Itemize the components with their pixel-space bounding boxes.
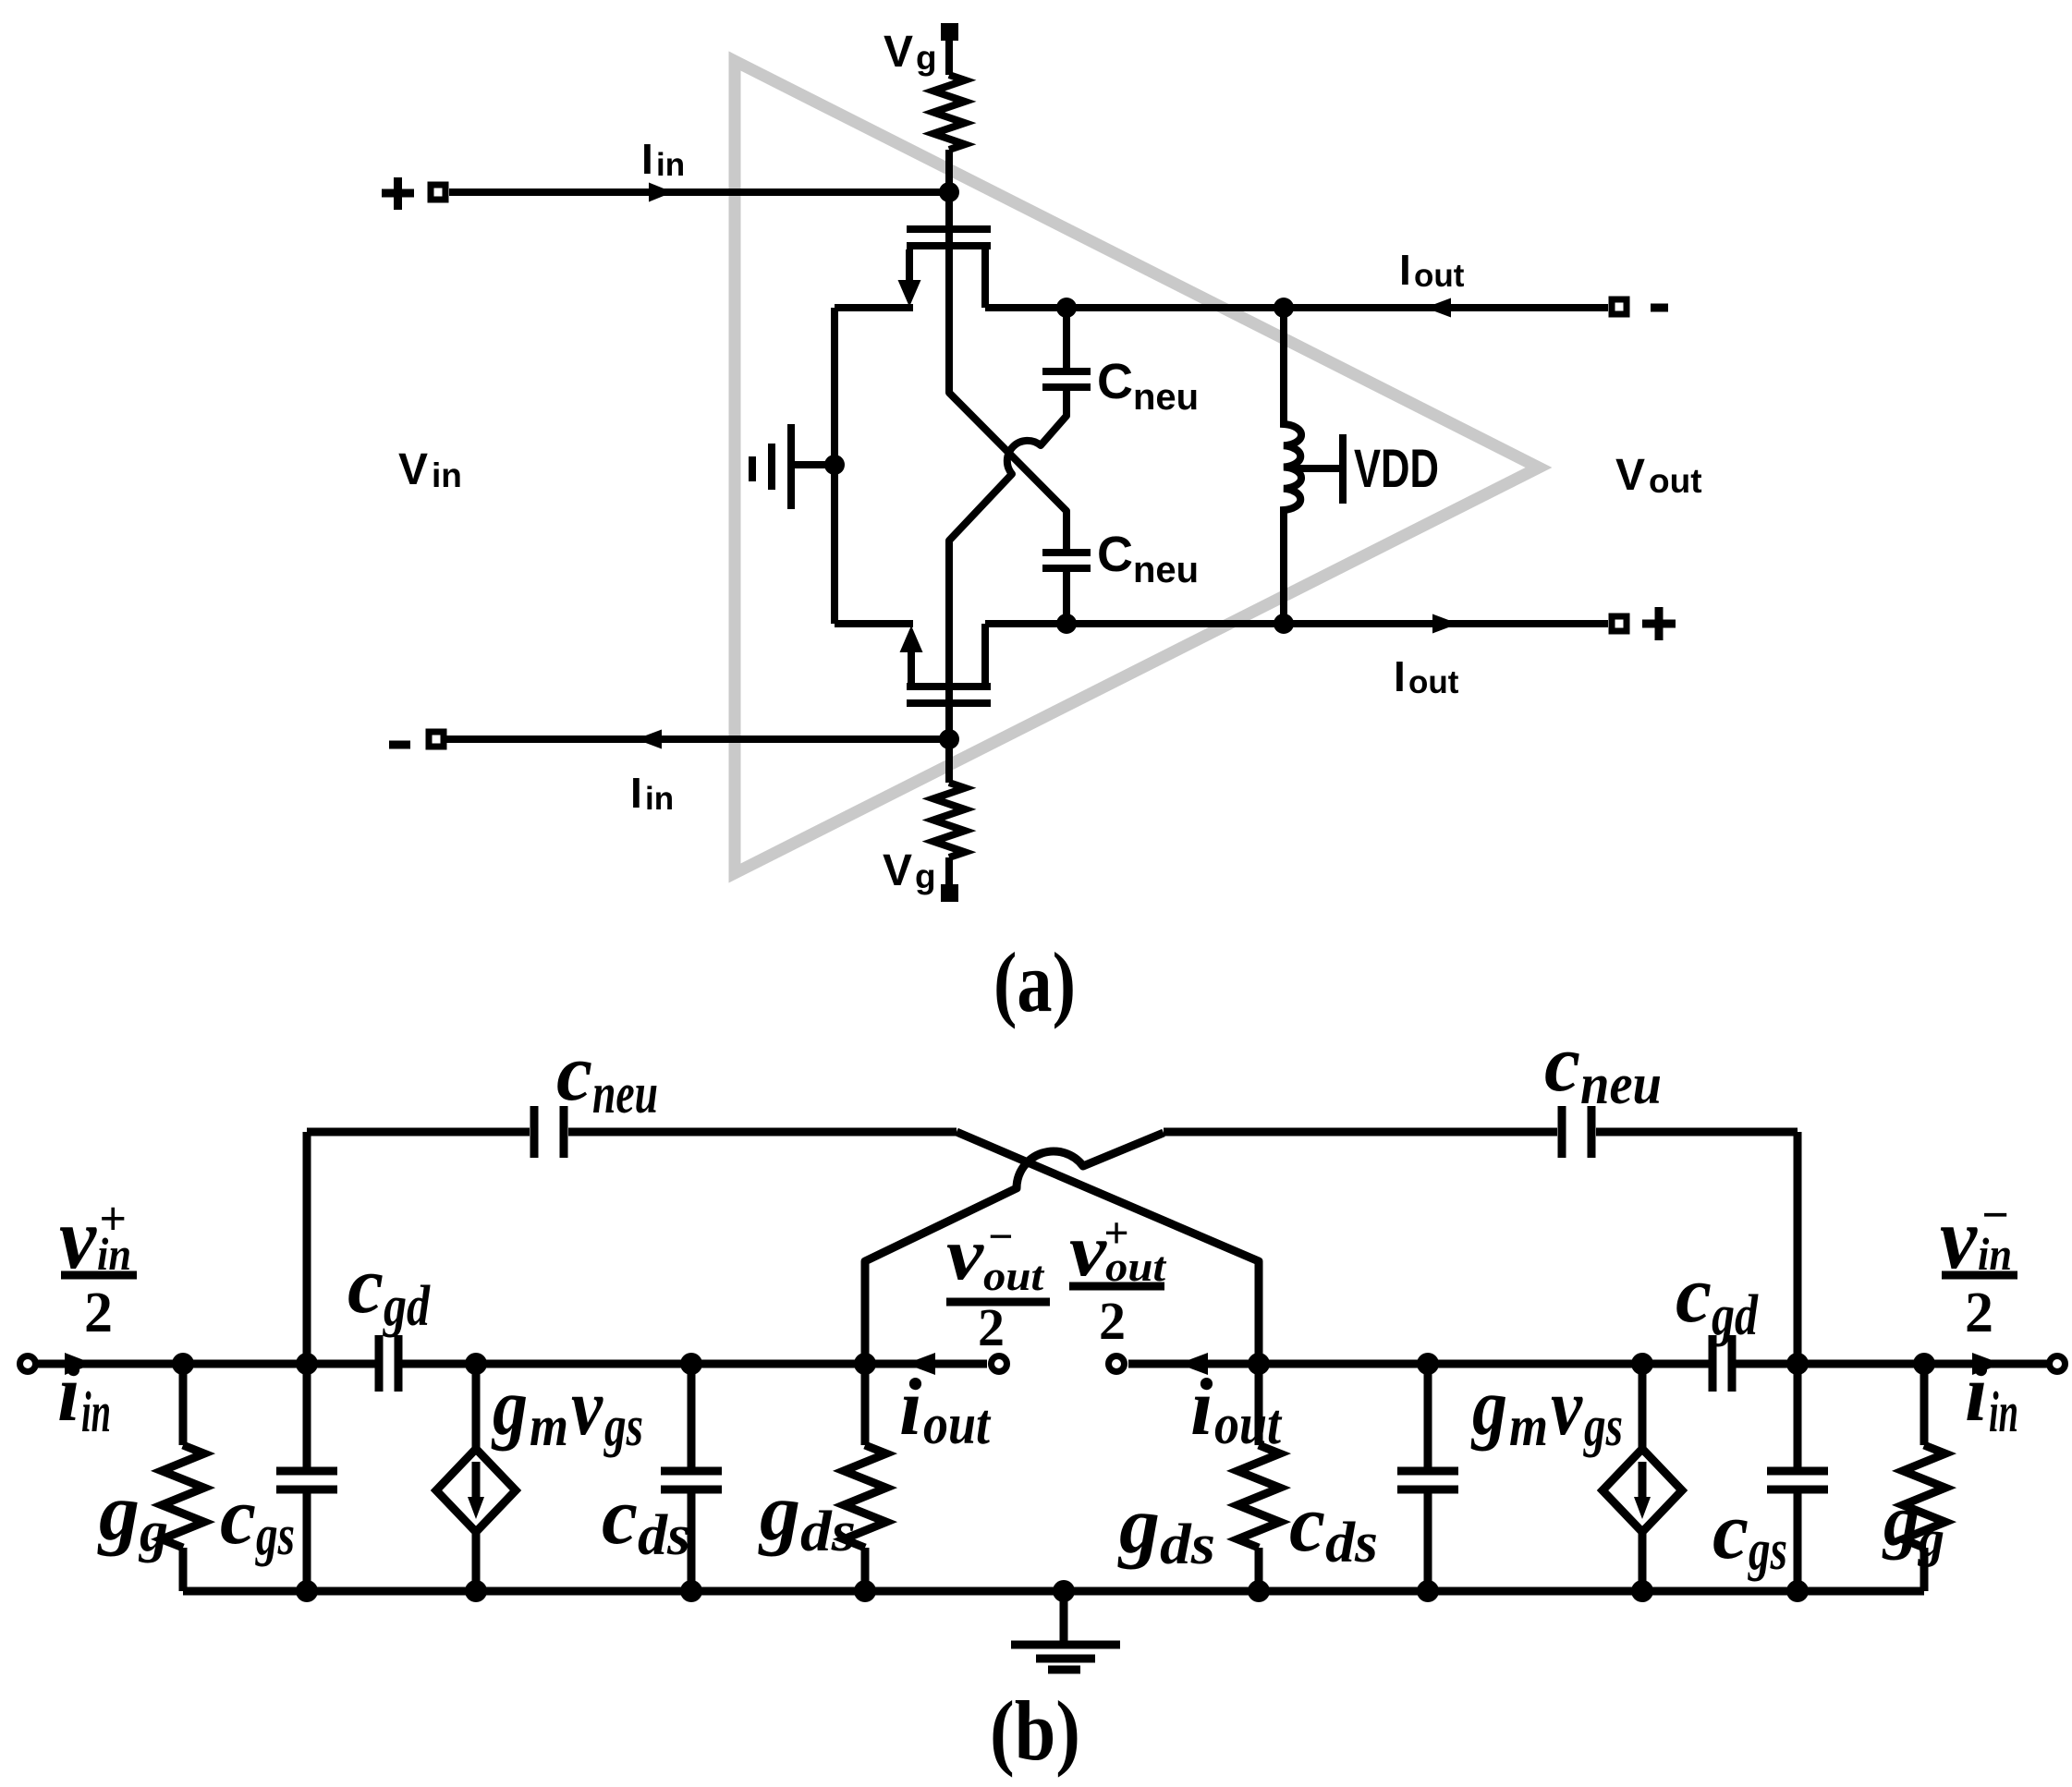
terminal Iout- (open square) [1612, 299, 1627, 314]
svg-text:C: C [1097, 527, 1133, 582]
wire cross line B with hop: bottom gate to Cneu1 [949, 386, 1066, 739]
transistor M2 channel bar [907, 683, 991, 690]
capacitor cneu left [303, 1132, 311, 1364]
svg-text:2: 2 [1099, 1291, 1126, 1351]
wire cross line A: top gate to Cneu2 [949, 192, 1066, 550]
svg-text:c: c [602, 1472, 638, 1562]
arrowhead iin left [65, 1353, 93, 1375]
svg-text:m: m [1509, 1395, 1548, 1458]
VDD supply bar [1339, 434, 1347, 504]
node gds bottom right [1248, 1580, 1270, 1602]
wire Iin top [449, 188, 949, 196]
svg-text:I: I [641, 135, 653, 183]
svg-text:out: out [923, 1393, 992, 1456]
arrowhead Iout top (pointing left) [1425, 298, 1451, 318]
svg-text:g: g [1917, 1511, 1944, 1568]
node gds bottom left [854, 1580, 876, 1602]
svg-text:I: I [630, 769, 642, 817]
minus sign Vin- [389, 741, 410, 749]
wire right drain rail [1128, 1360, 1709, 1368]
ground symbol (rotated, pointing left) [752, 424, 791, 509]
capacitor Cneu2 (bottom) [1063, 511, 1070, 549]
arrowhead iin right (pointing right) [1972, 1353, 2002, 1375]
node bottom gate input [939, 729, 959, 749]
wire bottom ground rail [183, 1587, 1924, 1596]
svg-text:v: v [946, 1214, 985, 1295]
transistor M1 source leg with arrow [906, 249, 913, 286]
transistor M1 channel bar [907, 242, 991, 249]
svg-text:C: C [1097, 354, 1133, 409]
svg-text:m: m [530, 1395, 568, 1458]
svg-text:out: out [1408, 664, 1459, 700]
node gm bottom left [465, 1580, 487, 1602]
svg-text:gs: gs [603, 1395, 643, 1458]
transistor M2 source leg with arrow [908, 647, 915, 683]
resistor gg right [1913, 1353, 1935, 1375]
terminal vout+ (open circle) [1109, 1356, 1125, 1372]
svg-text:gd: gd [382, 1275, 430, 1338]
svg-text:g: g [1882, 1480, 1920, 1561]
wire M2 source to left rail [835, 620, 913, 627]
transistor M1 gate bar [907, 225, 991, 233]
capacitor cds left [680, 1353, 702, 1375]
node cgs left bottom [296, 1580, 318, 1602]
svg-text:2: 2 [84, 1282, 113, 1344]
svg-text:V: V [1615, 451, 1645, 500]
svg-text:g: g [138, 1501, 168, 1563]
svg-text:I: I [1399, 246, 1411, 294]
wire gate rail after cgd [398, 1360, 987, 1368]
transistor M1 drain leg [981, 249, 989, 308]
svg-text:i: i [1190, 1363, 1213, 1453]
dependent source gm*vgs right [1631, 1353, 1653, 1375]
capacitor cgd right [1712, 1335, 1732, 1392]
ground symbol figure b [1053, 1580, 1075, 1602]
node gg left [172, 1353, 194, 1375]
svg-text:c: c [347, 1241, 384, 1331]
svg-text:in: in [81, 1381, 111, 1444]
capacitor Cneu1 (top) [1063, 308, 1070, 368]
wire Iin bottom [446, 735, 949, 743]
svg-text:v: v [1551, 1363, 1583, 1453]
svg-text:(a): (a) [993, 935, 1076, 1029]
svg-text:g: g [491, 1363, 528, 1453]
resistor R1 (top gate bias) [933, 75, 965, 150]
svg-text:in: in [656, 147, 685, 183]
transistor M2 drain leg [981, 624, 989, 683]
svg-text:in: in [645, 781, 674, 817]
dependent source gm*vgs left [465, 1353, 487, 1375]
resistor gg left [179, 1364, 188, 1445]
svg-text:ds: ds [1325, 1512, 1378, 1574]
svg-text:v: v [571, 1363, 603, 1453]
svg-text:i: i [1965, 1349, 1988, 1439]
svg-text:neu: neu [592, 1063, 658, 1125]
node ground-rail junction [824, 455, 845, 475]
node cds bottom left [680, 1580, 702, 1602]
minus sign output [1651, 304, 1668, 312]
terminal Vg top (filled square) [941, 23, 958, 41]
svg-text:in: in [432, 456, 462, 494]
node inductor bottom junction [1274, 614, 1294, 634]
svg-text:g: g [97, 1468, 140, 1558]
arrowhead Iin top [649, 183, 673, 202]
node cgs bottom right [1786, 1580, 1809, 1602]
wire left source rail [831, 308, 838, 624]
capacitor cds right [1417, 1353, 1439, 1375]
svg-text:i: i [899, 1363, 922, 1453]
wire left gate rail [37, 1360, 375, 1368]
plus sign output [1642, 607, 1676, 640]
svg-text:c: c [220, 1472, 256, 1562]
svg-text:g: g [916, 39, 937, 77]
svg-text:v: v [1069, 1210, 1108, 1292]
svg-text:gs: gs [1747, 1519, 1787, 1582]
arrowhead iout left (pointing left) [906, 1353, 935, 1375]
wire resistor to input node [945, 150, 953, 192]
svg-text:V: V [884, 28, 913, 77]
amplifier triangle (grey) [735, 61, 1539, 873]
svg-text:c: c [1712, 1487, 1749, 1576]
svg-text:ds: ds [1160, 1513, 1215, 1576]
wire drain top to output minus [985, 304, 1608, 311]
svg-text:V: V [883, 846, 912, 895]
resistor R2 (bottom gate bias) [933, 783, 965, 857]
wire M1 source to left rail [835, 304, 913, 311]
node Cneu2 bottom junction [1056, 614, 1077, 634]
wire gate rail right [1732, 1360, 2047, 1368]
terminal Iout+ (open square) [1612, 616, 1627, 631]
transistor M2 gate bar [907, 699, 991, 707]
svg-text:2: 2 [978, 1297, 1005, 1357]
terminal vout- (open circle) [992, 1356, 1007, 1372]
svg-text:out: out [983, 1252, 1044, 1299]
svg-text:out: out [1414, 258, 1465, 294]
svg-text:in: in [1989, 1381, 2018, 1444]
svg-text:g: g [915, 857, 936, 895]
wire bottom node to resistor [945, 739, 953, 783]
svg-text:VDD: VDD [1354, 439, 1439, 499]
svg-text:i: i [57, 1349, 80, 1439]
svg-text:c: c [1676, 1250, 1712, 1340]
wire Vg-top to resistor [945, 37, 953, 75]
wire cross L1: left cneu to right drain [957, 1132, 1259, 1364]
terminal Vin- (open square) [429, 732, 444, 747]
svg-text:ds: ds [638, 1504, 690, 1567]
resistor gds left [854, 1353, 876, 1375]
svg-text:V: V [398, 445, 428, 494]
terminal Vin+ (open square) [431, 185, 445, 200]
node Cneu1 top junction [1056, 298, 1077, 318]
wire cross L2 with hop: left drain to right cneu [865, 1133, 1164, 1364]
svg-text:gs: gs [1582, 1395, 1623, 1458]
wire drain bottom to output plus [985, 620, 1608, 627]
capacitor cgs left [303, 1364, 311, 1467]
node cds bottom right [1417, 1580, 1439, 1602]
arrowhead Iout bottom (pointing right) [1432, 614, 1458, 634]
svg-text:gs: gs [254, 1504, 295, 1567]
svg-text:g: g [1470, 1363, 1507, 1453]
arrowhead iout right (pointing left) [1178, 1353, 1208, 1375]
node top gate input [939, 182, 959, 202]
svg-text:(b): (b) [990, 1684, 1080, 1778]
svg-text:c: c [1544, 1019, 1580, 1109]
node gm bottom right [1631, 1580, 1653, 1602]
capacitor cgd left [379, 1335, 398, 1392]
capacitor cneu right [1164, 1128, 1557, 1137]
terminal vin+ (open circle) [20, 1356, 36, 1372]
wire VDD tap [1291, 465, 1339, 472]
svg-text:neu: neu [1580, 1053, 1662, 1116]
node inductor top junction [1274, 298, 1294, 318]
terminal vin- (open circle) [2050, 1356, 2066, 1372]
svg-text:ds: ds [800, 1501, 856, 1563]
svg-text:g: g [1117, 1481, 1160, 1571]
svg-text:c: c [556, 1028, 592, 1118]
svg-text:neu: neu [1133, 377, 1199, 418]
arrowhead Iin bottom (pointing left) [636, 730, 662, 749]
wire resistor to Vg-bottom terminal [945, 857, 953, 885]
node cgs/cneu left top [296, 1353, 318, 1375]
svg-text:gd: gd [1710, 1284, 1758, 1347]
svg-text:I: I [1394, 652, 1406, 700]
wire ground to rail [791, 461, 835, 468]
plus sign Vin+ [382, 177, 414, 210]
svg-text:g: g [758, 1468, 800, 1558]
capacitor cgs right + cneu junction [1786, 1353, 1809, 1375]
terminal Vg bottom (filled square) [941, 884, 958, 902]
resistor gds right [1248, 1353, 1270, 1375]
svg-text:neu: neu [1133, 550, 1199, 590]
svg-text:out: out [1649, 462, 1702, 500]
svg-text:c: c [1289, 1479, 1325, 1569]
inductor L1 (load) [1284, 308, 1301, 624]
svg-text:2: 2 [1965, 1282, 1993, 1344]
